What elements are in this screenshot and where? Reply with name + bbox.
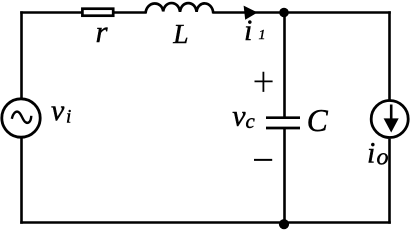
svg-text:c: c [246, 109, 256, 133]
wire capacitor branch upper [283, 13, 286, 117]
svg-text:v: v [51, 94, 65, 127]
svg-text:o: o [377, 145, 389, 171]
resistor r [82, 9, 113, 16]
wire left vertical upper [20, 11, 23, 98]
svg-text:v: v [232, 100, 246, 133]
polarity plus sign [255, 72, 273, 92]
svg-text:r: r [96, 14, 109, 49]
node junction dot bottom [279, 219, 289, 229]
wire top horizontal between resistor and inductor [114, 11, 146, 14]
wire top horizontal from inductor to top-right corner [213, 11, 391, 14]
wire top horizontal left segment [20, 11, 81, 14]
wire capacitor branch lower [283, 128, 286, 222]
svg-text:C: C [307, 103, 329, 138]
voltage source vi [2, 99, 40, 137]
svg-text:1: 1 [259, 28, 266, 43]
wire bottom horizontal [20, 221, 391, 224]
current source arrow [390, 105, 393, 122]
capacitor C plates [266, 116, 300, 119]
svg-text:i: i [244, 14, 252, 47]
svg-text:i: i [367, 137, 375, 170]
node junction dot top [279, 8, 289, 18]
inductor L [146, 3, 214, 13]
wire left vertical lower [20, 139, 23, 224]
polarity minus sign [254, 159, 272, 161]
svg-text:L: L [172, 18, 188, 49]
svg-text:i: i [66, 107, 71, 128]
wire right vertical lower [388, 139, 391, 224]
current arrow i1 [244, 6, 258, 20]
wire right vertical upper [388, 11, 391, 99]
sine symbol inside source [12, 112, 32, 123]
current source io [371, 101, 408, 138]
